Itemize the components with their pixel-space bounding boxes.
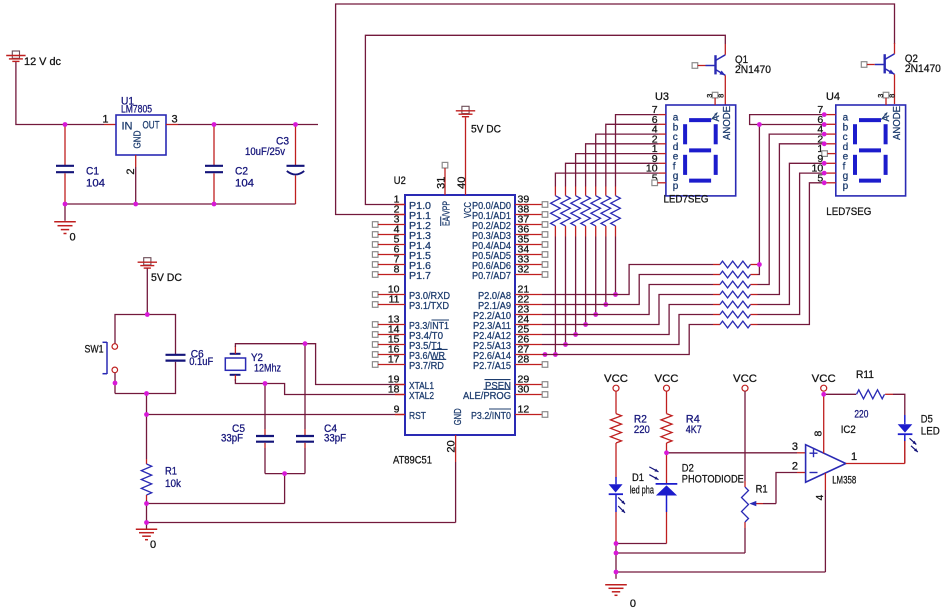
svg-text:IC2: IC2 — [841, 424, 856, 436]
svg-text:220: 220 — [854, 408, 868, 420]
svg-text:U2: U2 — [394, 175, 406, 187]
svg-text:LM358: LM358 — [832, 475, 856, 487]
svg-text:17: 17 — [388, 354, 400, 366]
svg-text:10k: 10k — [165, 478, 181, 490]
svg-text:P0.7/AD7: P0.7/AD7 — [472, 270, 511, 282]
svg-text:GND: GND — [132, 131, 143, 149]
svg-text:P2.7/A15: P2.7/A15 — [473, 360, 511, 372]
svg-text:C2: C2 — [235, 166, 248, 178]
svg-text:D5: D5 — [921, 413, 933, 425]
svg-text:1: 1 — [851, 451, 857, 463]
svg-text:8: 8 — [887, 94, 896, 98]
svg-text:0: 0 — [630, 598, 636, 610]
svg-text:220: 220 — [634, 424, 650, 436]
svg-text:VCC: VCC — [463, 202, 474, 218]
svg-text:U4: U4 — [826, 91, 840, 103]
svg-text:led pha: led pha — [630, 485, 655, 497]
svg-text:RST: RST — [409, 410, 426, 422]
svg-text:0.1uF: 0.1uF — [189, 356, 213, 368]
svg-text:3: 3 — [876, 94, 885, 98]
svg-text:ALE/PROG: ALE/PROG — [463, 390, 511, 402]
svg-text:p: p — [843, 181, 849, 192]
svg-text:AT89C51: AT89C51 — [393, 455, 432, 467]
svg-text:R11: R11 — [856, 369, 874, 381]
svg-text:C1: C1 — [86, 166, 99, 178]
svg-text:5V DC: 5V DC — [471, 124, 501, 136]
svg-text:28: 28 — [518, 354, 530, 366]
svg-text:ANODE: ANODE — [721, 106, 733, 140]
svg-text:LED: LED — [921, 425, 940, 437]
svg-text:P3.2/INT0: P3.2/INT0 — [471, 410, 511, 422]
svg-text:32: 32 — [518, 264, 530, 276]
svg-text:LED7SEG: LED7SEG — [826, 206, 871, 218]
svg-text:8: 8 — [717, 94, 726, 98]
svg-text:1: 1 — [102, 114, 108, 126]
svg-text:5V DC: 5V DC — [151, 272, 182, 284]
svg-text:4K7: 4K7 — [686, 424, 702, 436]
svg-text:3: 3 — [172, 114, 178, 126]
svg-text:SW1: SW1 — [85, 344, 104, 356]
svg-text:IN: IN — [122, 121, 133, 133]
svg-text:8: 8 — [812, 431, 824, 437]
svg-text:104: 104 — [86, 178, 105, 190]
svg-text:2N1470: 2N1470 — [735, 64, 771, 76]
svg-text:P3.1/TXD: P3.1/TXD — [409, 300, 449, 312]
svg-text:VCC: VCC — [604, 373, 628, 385]
svg-text:0: 0 — [70, 232, 76, 244]
svg-text:VCC: VCC — [655, 373, 679, 385]
svg-text:3: 3 — [705, 94, 714, 98]
svg-text:P3.7/RD: P3.7/RD — [409, 360, 444, 372]
svg-text:R1: R1 — [756, 483, 768, 495]
svg-text:8: 8 — [394, 264, 400, 276]
svg-text:XTAL2: XTAL2 — [409, 390, 434, 402]
svg-text:30: 30 — [518, 384, 530, 396]
svg-text:33pF: 33pF — [221, 433, 243, 445]
svg-text:PHOTODIODE: PHOTODIODE — [682, 473, 744, 485]
svg-text:11: 11 — [389, 294, 400, 306]
svg-text:2N1470: 2N1470 — [905, 63, 941, 75]
svg-text:P1.7: P1.7 — [409, 270, 431, 282]
svg-text:p: p — [673, 181, 679, 192]
svg-text:40: 40 — [456, 177, 468, 189]
svg-text:9: 9 — [394, 404, 400, 416]
svg-text:LED7SEG: LED7SEG — [664, 194, 709, 206]
svg-text:104: 104 — [235, 178, 254, 190]
svg-text:31: 31 — [435, 177, 447, 189]
svg-text:EA/VPP: EA/VPP — [442, 201, 453, 226]
svg-text:18: 18 — [388, 384, 400, 396]
svg-text:U3: U3 — [655, 91, 669, 103]
svg-text:4: 4 — [814, 495, 826, 501]
svg-text:10uF/25v: 10uF/25v — [245, 146, 285, 158]
svg-text:D1: D1 — [632, 472, 644, 484]
svg-text:2: 2 — [792, 460, 798, 472]
svg-text:3: 3 — [792, 441, 798, 453]
svg-text:0: 0 — [150, 539, 156, 551]
svg-text:GND: GND — [453, 408, 464, 425]
svg-text:OUT: OUT — [143, 119, 160, 131]
svg-text:20: 20 — [446, 440, 458, 452]
svg-text:12Mhz: 12Mhz — [254, 363, 281, 375]
svg-text:12 V dc: 12 V dc — [24, 56, 61, 68]
svg-text:LM7805: LM7805 — [121, 104, 152, 116]
svg-text:12: 12 — [518, 404, 530, 416]
svg-text:VCC: VCC — [812, 373, 836, 385]
svg-text:ANODE: ANODE — [891, 106, 903, 140]
svg-text:VCC: VCC — [733, 373, 757, 385]
svg-text:R1: R1 — [165, 466, 177, 478]
svg-text:33pF: 33pF — [324, 433, 346, 445]
svg-text:2: 2 — [125, 168, 137, 174]
